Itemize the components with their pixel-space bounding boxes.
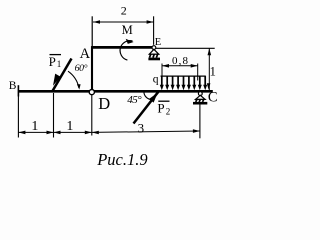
dimension 1 (vertical right)	[207, 48, 211, 90]
moment M arc with arrowhead	[120, 39, 134, 60]
svg-text:D: D	[98, 94, 110, 113]
svg-text:C: C	[208, 90, 218, 106]
svg-text:P: P	[49, 54, 56, 69]
label P2 with overline	[157, 101, 170, 117]
svg-text:3: 3	[138, 120, 145, 135]
force P2 arrow	[134, 92, 159, 124]
60 degree arc with arrowhead	[68, 71, 81, 89]
distributed load q	[160, 76, 207, 90]
svg-text:E: E	[155, 37, 161, 48]
45 degree arc	[144, 92, 152, 100]
svg-text:B: B	[9, 80, 17, 92]
svg-text:2: 2	[166, 107, 171, 117]
wire: vertical member A-D	[91, 46, 93, 90]
bottom dimension witness lines	[18, 93, 200, 138]
node B end tick	[17, 85, 19, 96]
svg-text:1: 1	[66, 119, 73, 134]
label P1 with overline	[49, 54, 62, 69]
witness at D	[91, 95, 93, 136]
wire: lower beam B-D-C	[18, 90, 212, 93]
svg-text:2: 2	[121, 4, 127, 18]
wire: upper beam A-E	[92, 46, 152, 49]
witness at B	[17, 97, 19, 138]
witness at P1 point	[53, 93, 55, 138]
support E (pin)	[148, 46, 160, 61]
wire: thin line from E to right edge	[156, 47, 215, 49]
svg-text:1: 1	[57, 59, 62, 69]
svg-text:A: A	[80, 46, 91, 62]
svg-text:M: M	[122, 23, 133, 37]
svg-text:0,8: 0,8	[172, 55, 189, 67]
force P1 arrow	[53, 59, 72, 92]
svg-text:45°: 45°	[127, 94, 142, 106]
dimension 1-1 (bottom left)	[18, 131, 91, 135]
dimension 0,8	[162, 64, 198, 81]
svg-text:q: q	[153, 73, 159, 85]
svg-text:1: 1	[210, 65, 216, 79]
wire: extension line above A	[91, 16, 93, 46]
svg-text:Рис.1.9: Рис.1.9	[96, 150, 147, 169]
dimension 2 (top)	[93, 16, 154, 45]
witness at C	[199, 105, 201, 139]
node D hinge circle	[89, 90, 94, 95]
dimension 3 (bottom right)	[92, 129, 200, 134]
support C (pin)	[193, 92, 207, 105]
svg-text:1: 1	[31, 119, 38, 134]
svg-text:60°: 60°	[75, 63, 88, 74]
svg-text:P: P	[157, 101, 164, 116]
